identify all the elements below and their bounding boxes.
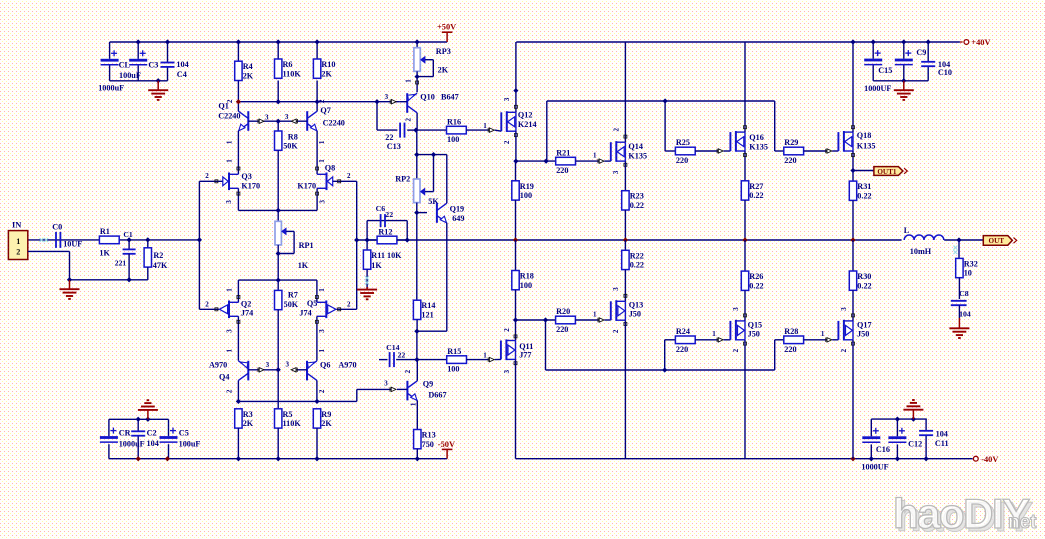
svg-text:2: 2: [612, 128, 620, 132]
svg-text:R9: R9: [321, 410, 331, 419]
svg-text:D667: D667: [428, 391, 446, 400]
svg-text:1: 1: [16, 237, 20, 246]
svg-text:C1: C1: [123, 230, 132, 239]
svg-text:3: 3: [840, 307, 848, 311]
svg-text:R13: R13: [422, 431, 436, 440]
svg-text:100: 100: [520, 191, 532, 200]
svg-text:1: 1: [226, 159, 234, 163]
svg-text:1: 1: [593, 151, 597, 159]
svg-text:K135: K135: [628, 151, 647, 160]
svg-text:R3: R3: [243, 410, 253, 419]
svg-text:C0: C0: [52, 222, 62, 231]
svg-text:net: net: [1008, 512, 1037, 533]
svg-text:C16: C16: [876, 445, 890, 454]
svg-text:R1: R1: [100, 227, 110, 236]
svg-text:50K: 50K: [284, 300, 299, 309]
svg-text:22: 22: [398, 350, 406, 359]
svg-text:1: 1: [404, 79, 412, 83]
svg-text:2: 2: [503, 328, 511, 332]
svg-text:2: 2: [318, 389, 326, 393]
svg-text:100uF: 100uF: [119, 71, 141, 80]
svg-text:100: 100: [447, 365, 459, 374]
svg-text:2: 2: [16, 248, 20, 257]
svg-text:10UF: 10UF: [63, 240, 82, 249]
svg-text:1: 1: [318, 140, 326, 144]
svg-text:C2240: C2240: [323, 119, 345, 128]
svg-text:Q14: Q14: [628, 142, 643, 151]
svg-text:2: 2: [840, 348, 848, 352]
svg-text:R21: R21: [556, 148, 570, 157]
svg-text:C3: C3: [148, 61, 158, 70]
svg-text:2K: 2K: [438, 66, 449, 75]
svg-text:3: 3: [503, 369, 511, 373]
svg-text:B647: B647: [441, 93, 459, 102]
svg-text:220: 220: [556, 166, 568, 175]
svg-text:1K: 1K: [298, 261, 309, 270]
svg-text:3: 3: [265, 114, 269, 122]
svg-text:Q15: Q15: [748, 321, 763, 330]
svg-text:R7: R7: [288, 291, 298, 300]
svg-text:2: 2: [225, 389, 233, 393]
svg-text:C15: C15: [878, 66, 892, 75]
svg-text:1000UF: 1000UF: [864, 84, 891, 93]
svg-text:3: 3: [612, 170, 620, 174]
svg-text:Q3: Q3: [241, 172, 251, 181]
svg-text:R31: R31: [857, 182, 871, 191]
svg-text:C13: C13: [387, 142, 401, 151]
svg-text:2: 2: [732, 348, 740, 352]
svg-text:+40V: +40V: [971, 38, 990, 47]
svg-text:3: 3: [285, 361, 289, 369]
svg-text:2: 2: [404, 369, 412, 373]
svg-text:2K: 2K: [243, 419, 254, 428]
svg-text:2: 2: [347, 300, 351, 308]
svg-text:RP3: RP3: [436, 47, 451, 56]
svg-text:Q18: Q18: [857, 131, 872, 140]
svg-text:1: 1: [318, 288, 326, 292]
svg-text:2: 2: [226, 99, 234, 103]
svg-text:OUT1: OUT1: [877, 168, 897, 176]
svg-text:C9: C9: [916, 48, 926, 57]
svg-text:104: 104: [936, 430, 948, 439]
svg-text:0.22: 0.22: [749, 281, 763, 290]
svg-text:R29: R29: [784, 138, 798, 147]
svg-text:Q13: Q13: [629, 301, 644, 310]
svg-text:2K: 2K: [243, 72, 254, 81]
svg-text:Q8: Q8: [325, 163, 335, 172]
svg-text:J50: J50: [857, 329, 869, 338]
svg-text:K135: K135: [749, 142, 768, 151]
svg-text:2: 2: [347, 172, 351, 180]
svg-text:2: 2: [205, 300, 209, 308]
svg-text:R30: R30: [857, 272, 871, 281]
svg-text:1: 1: [483, 352, 487, 360]
svg-text:A970: A970: [209, 361, 227, 370]
svg-text:R11 10K: R11 10K: [371, 251, 402, 260]
svg-text:R4: R4: [243, 62, 253, 71]
svg-text:R14: R14: [421, 301, 435, 310]
svg-text:L: L: [904, 226, 910, 235]
svg-text:K135: K135: [857, 142, 876, 151]
svg-text:R22: R22: [630, 251, 644, 260]
svg-text:0.22: 0.22: [630, 261, 644, 270]
svg-text:121: 121: [421, 311, 433, 320]
svg-text:RP1: RP1: [299, 241, 314, 250]
svg-text:-40V: -40V: [981, 455, 998, 464]
svg-text:R12: R12: [378, 227, 392, 236]
svg-text:220: 220: [556, 325, 568, 334]
svg-text:J77: J77: [519, 351, 531, 360]
svg-text:104: 104: [176, 60, 188, 69]
svg-text:0.22: 0.22: [630, 201, 644, 210]
svg-text:C4: C4: [177, 70, 187, 79]
svg-text:C10: C10: [938, 68, 952, 77]
svg-text:221: 221: [115, 258, 127, 267]
svg-text:J74: J74: [241, 308, 253, 317]
svg-text:R16: R16: [447, 117, 461, 126]
svg-text:0.22: 0.22: [857, 281, 871, 290]
svg-text:100: 100: [447, 135, 459, 144]
svg-text:22: 22: [385, 210, 393, 219]
svg-text:Q4: Q4: [219, 372, 229, 381]
svg-text:C8: C8: [959, 289, 969, 298]
svg-text:1: 1: [593, 310, 597, 318]
svg-text:Q5: Q5: [307, 299, 317, 308]
svg-text:2: 2: [318, 99, 326, 103]
svg-text:2K: 2K: [321, 69, 332, 78]
svg-text:Q19: Q19: [450, 204, 465, 213]
svg-text:R26: R26: [749, 272, 763, 281]
svg-text:2: 2: [503, 140, 511, 144]
svg-text:+50V: +50V: [437, 23, 456, 32]
svg-text:C11: C11: [935, 439, 949, 448]
svg-text:R28: R28: [784, 327, 798, 336]
svg-text:K170: K170: [241, 182, 260, 191]
svg-text:R32: R32: [964, 259, 978, 268]
svg-text:0.22: 0.22: [857, 191, 871, 200]
svg-text:CL: CL: [119, 61, 131, 70]
svg-text:1: 1: [226, 288, 234, 292]
svg-text:750: 750: [422, 440, 434, 449]
svg-text:1: 1: [712, 330, 716, 338]
svg-text:3: 3: [385, 93, 389, 101]
svg-text:C2240: C2240: [218, 111, 240, 120]
svg-text:Q9: Q9: [423, 379, 433, 388]
svg-text:Q12: Q12: [518, 111, 533, 120]
svg-text:A970: A970: [338, 360, 356, 369]
svg-text:50K: 50K: [283, 142, 298, 151]
svg-text:3: 3: [503, 97, 511, 101]
svg-text:1000UF: 1000UF: [861, 463, 888, 472]
svg-text:3: 3: [225, 200, 233, 204]
svg-text:Q6: Q6: [320, 360, 330, 369]
svg-text:IN: IN: [12, 221, 21, 230]
svg-text:R5: R5: [283, 410, 293, 419]
svg-text:Q2: Q2: [241, 300, 251, 309]
svg-text:220: 220: [676, 345, 688, 354]
svg-text:-50V: -50V: [438, 440, 455, 449]
svg-text:1K: 1K: [371, 261, 382, 270]
svg-text:1000uF: 1000uF: [98, 84, 124, 93]
svg-text:R10: R10: [321, 60, 335, 69]
svg-text:220: 220: [784, 156, 796, 165]
svg-text:J50: J50: [629, 310, 641, 319]
svg-text:3: 3: [285, 113, 289, 121]
svg-text:C6: C6: [376, 204, 386, 213]
svg-text:0.22: 0.22: [749, 191, 763, 200]
svg-text:1: 1: [410, 402, 418, 406]
svg-text:3: 3: [612, 287, 620, 291]
svg-text:J50: J50: [748, 329, 760, 338]
svg-text:1: 1: [821, 330, 825, 338]
svg-text:OUT: OUT: [989, 237, 1005, 245]
svg-text:1: 1: [318, 349, 326, 353]
svg-text:3: 3: [318, 329, 326, 333]
svg-text:649: 649: [452, 214, 464, 223]
svg-text:1: 1: [225, 140, 233, 144]
svg-text:1K: 1K: [99, 249, 110, 258]
svg-text:2: 2: [612, 329, 620, 333]
svg-text:10mH: 10mH: [910, 247, 932, 256]
svg-text:100: 100: [520, 281, 532, 290]
svg-text:104: 104: [959, 310, 971, 319]
svg-text:1: 1: [225, 349, 233, 353]
svg-text:J74: J74: [299, 308, 311, 317]
svg-text:10: 10: [964, 269, 972, 278]
svg-text:R19: R19: [520, 182, 534, 191]
svg-text:110K: 110K: [283, 419, 302, 428]
svg-text:220: 220: [676, 156, 688, 165]
svg-text:2K: 2K: [321, 419, 332, 428]
svg-text:CR: CR: [119, 429, 131, 438]
svg-text:3: 3: [318, 200, 326, 204]
svg-text:Q17: Q17: [857, 321, 872, 330]
svg-text:47K: 47K: [153, 261, 168, 270]
svg-text:R25: R25: [676, 138, 690, 147]
svg-text:Q11: Q11: [519, 342, 533, 351]
svg-text:R23: R23: [630, 192, 644, 201]
svg-text:R15: R15: [447, 347, 461, 356]
svg-text:1: 1: [318, 159, 326, 163]
svg-text:3: 3: [384, 379, 388, 387]
svg-text:R27: R27: [749, 182, 763, 191]
svg-text:C2: C2: [147, 429, 157, 438]
svg-text:K170: K170: [297, 182, 316, 191]
svg-text:Q16: Q16: [749, 133, 764, 142]
svg-text:RP2: RP2: [395, 175, 410, 184]
svg-text:K214: K214: [518, 120, 537, 129]
svg-text:R18: R18: [520, 272, 534, 281]
svg-text:220: 220: [784, 345, 796, 354]
svg-text:100uF: 100uF: [179, 439, 201, 448]
svg-text:2: 2: [405, 118, 413, 122]
svg-text:110K: 110K: [283, 69, 302, 78]
svg-text:R6: R6: [283, 60, 293, 69]
svg-text:2: 2: [205, 172, 209, 180]
svg-text:1000uF: 1000uF: [119, 439, 145, 448]
svg-text:3: 3: [266, 361, 270, 369]
svg-text:R20: R20: [556, 307, 570, 316]
svg-text:C12: C12: [908, 439, 922, 448]
svg-text:R8: R8: [288, 133, 298, 142]
svg-text:3: 3: [225, 329, 233, 333]
svg-text:R24: R24: [676, 327, 690, 336]
svg-text:1: 1: [483, 122, 487, 130]
svg-text:Q10: Q10: [420, 93, 435, 102]
svg-text:C5: C5: [179, 429, 189, 438]
svg-text:Q7: Q7: [320, 106, 330, 115]
svg-text:R2: R2: [153, 251, 163, 260]
svg-text:104: 104: [147, 439, 159, 448]
svg-text:3: 3: [732, 307, 740, 311]
